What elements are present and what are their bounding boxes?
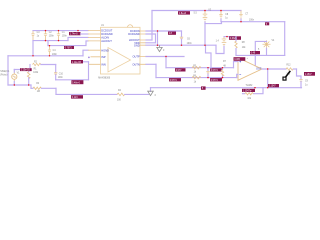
svg-text:OUTN: OUTN (132, 62, 139, 66)
svg-text:DCDGND: DCDGND (128, 32, 140, 36)
node label box B+ on top supply wire (178, 11, 190, 14)
wire bottom rail y=86.8 (151, 87, 302, 89)
capacitor C3 leads (32, 31, 34, 41)
resistor R1 bottom lead (28, 78, 30, 85)
svg-text:(Pulse): (Pulse) (0, 75, 7, 77)
svg-text:C2: C2 (49, 32, 53, 34)
resistor R2 zigzag (33, 63, 41, 65)
node label box on y=45.6 row (64, 46, 74, 49)
node label box I on upper run (175, 68, 186, 71)
node label box E (242, 89, 255, 92)
svg-text:ALDOUT: ALDOUT (101, 39, 112, 43)
junction dot R1 bottom (28, 84, 29, 85)
svg-text:1.4: 1.4 (216, 41, 220, 43)
capacitor C2 leads (45, 31, 47, 41)
capacitor C8 plates (219, 15, 222, 17)
junction dot V2 top (226, 36, 227, 37)
lamp source V4 rays (263, 40, 271, 48)
ground symbol 0 near IC (157, 45, 162, 51)
wire cap-row bottom bus y=40.6 (33, 40, 68, 42)
IC U1 internal amp triangle (108, 48, 131, 73)
wire top supply horizontal y=10.5 (152, 10, 241, 12)
svg-text:HGND: HGND (101, 48, 109, 52)
wire op-amp output down to bottom rail (267, 69, 269, 88)
capacitor C4 leads (49, 46, 51, 56)
svg-text:R4: R4 (118, 90, 122, 92)
wire cap-row top bus y=30.6 to IC pin DCDOUT (33, 30, 88, 32)
svg-text:+: + (247, 58, 249, 60)
svg-text:100n: 100n (187, 43, 193, 45)
svg-text:1u: 1u (37, 36, 40, 38)
svg-text:V4: V4 (272, 40, 276, 42)
IC U1 body (101, 27, 141, 74)
wire C10 to INN riser y=79.8 (56, 79, 89, 81)
wire jog up into ALDIN pin row (68, 37, 88, 40)
svg-text:100: 100 (117, 100, 122, 102)
junction dot row1 left (77, 30, 78, 31)
wire OUTN row from IC (146, 63, 156, 65)
svg-text:0.5774: 0.5774 (170, 80, 178, 82)
wire riser to R2 level (29, 65, 31, 70)
capacitor C1 leads (58, 31, 60, 41)
svg-text:100n: 100n (249, 20, 255, 22)
IC U1 top notch (128, 25, 133, 28)
wire row1 down to GND wire x=157.5 (157, 31, 159, 45)
node label box C at start of bottom bus (71, 95, 83, 98)
wire left vertical x=8 down (7, 56, 9, 85)
wire branch y=23.6 from V3 vertical to C8 net (205, 22, 222, 24)
svg-text:C4: C4 (53, 50, 57, 52)
wire LDOOUT row to top-supply vertical (146, 39, 152, 41)
resistor R3 leads (31, 87, 56, 89)
resistor R7 bridging input runs (222, 68, 224, 78)
junction dot bottom bus (58, 40, 59, 41)
svg-text:OUT: OUT (256, 66, 262, 70)
resistor R8 zigzag (235, 41, 237, 48)
wire C8 bottom to mid rail y=21.7 (220, 19, 222, 22)
junction dot C6 bottom (181, 44, 182, 45)
svg-text:100n: 100n (58, 77, 64, 79)
svg-text:DCDGND: DCDGND (101, 32, 113, 36)
node label box on V1 wire (20, 68, 32, 71)
node label box A (71, 60, 83, 63)
svg-text:1M: 1M (37, 91, 40, 93)
svg-text:0: 0 (155, 95, 157, 97)
op-amp U2 triangle (238, 58, 262, 81)
svg-text:C10: C10 (59, 73, 64, 75)
svg-text:10k: 10k (242, 47, 247, 49)
svg-text:V1: V1 (17, 73, 21, 75)
svg-text:0.5774: 0.5774 (211, 70, 219, 72)
wire drop to bottom bus (55, 88, 57, 94)
svg-text:DCDOUT: DCDOUT (101, 29, 113, 33)
voltage source V1 leads (13, 72, 15, 82)
junction dot GND wire left (157, 44, 158, 45)
wire OUTN drop to lower input run (155, 64, 157, 77)
resistor RE zigzag (245, 93, 254, 95)
wire R2 output to C10 drop (41, 64, 56, 66)
capacitor bridging input runs leads (207, 68, 209, 78)
svg-text:ALDIN: ALDIN (101, 36, 109, 40)
junction dot lower run R7 (222, 77, 223, 78)
resistor R1 top lead (28, 70, 30, 72)
wire V2 top rail y=36.6 to R8 (224, 36, 236, 38)
svg-text:0.7071: 0.7071 (65, 48, 73, 50)
wire jog down to R3 (30, 85, 32, 88)
capacitor C6 bottom lead (181, 39, 183, 45)
resistor R12 zigzag (286, 68, 293, 70)
wire R12 to output corner (293, 68, 296, 70)
wire from label box A to riser y=61.8 (83, 61, 89, 63)
capacitor C3 plates (31, 34, 34, 36)
node label box B on y=78.8 wire (71, 80, 83, 84)
junction dot C7 bottom rail (240, 21, 241, 22)
resistor R5 zigzag (192, 67, 201, 69)
IC U1 left pin stubs (88, 31, 101, 65)
wire upper input run y=67.7 (166, 67, 234, 69)
junction dot C4 top (49, 45, 50, 46)
wire C7 bottom to mid rail (240, 19, 242, 22)
wire mid row y=45.6 through label to ALDOUT jog (48, 41, 88, 46)
svg-text:U1: U1 (101, 25, 105, 27)
wire op-amp output y=69 (262, 68, 286, 70)
svg-text:1u: 1u (225, 18, 228, 20)
svg-text:1.12e-06: 1.12e-06 (72, 62, 82, 64)
junction dot bottom rail E (254, 87, 255, 88)
svg-text:10k: 10k (247, 98, 252, 100)
capacitor C9 plates (299, 80, 302, 82)
wire V4 bottom to y=55.4 rail (266, 48, 268, 55)
node label box on mid rail (265, 22, 269, 25)
wire V1 top rail y=69.5 (14, 69, 30, 71)
svg-text:TL082: TL082 (246, 84, 253, 87)
capacitor C7 plates (239, 14, 242, 16)
battery V3 leads (204, 11, 206, 23)
junction dot output node (267, 68, 268, 69)
wire OUTP row from IC (146, 56, 184, 58)
wire bottom-left bus y=85 (8, 84, 31, 86)
svg-text:5: 5 (258, 49, 260, 51)
resistor R1 zigzag (27, 72, 30, 79)
junction dot OUTP drop (165, 56, 166, 57)
wire y=55.4 rail from R8 to right vertical (236, 54, 285, 56)
junction dot upper run R7 (222, 67, 223, 68)
svg-text:C9: C9 (305, 81, 309, 83)
junction dot V3 top (204, 10, 206, 12)
junction dot cap row (45, 30, 46, 31)
IC U1 unconnected INP pin marker (88, 57, 90, 59)
node label box D on bottom rail (268, 84, 279, 87)
resistor R8 bottom lead (235, 49, 237, 56)
capacitor C2 plates (44, 34, 47, 36)
node label box on row1 right (168, 32, 176, 35)
svg-text:MAX98306: MAX98306 (98, 77, 110, 80)
wire mid rail y=21.7 (221, 21, 285, 23)
IC U1 right pin stubs (140, 31, 146, 64)
capacitor C6 drop from row1 (181, 31, 183, 37)
node label box on bottom rail (201, 86, 206, 89)
wire OUTP drop to upper input run (165, 57, 167, 68)
capacitor C6 plates (180, 37, 183, 39)
svg-text:100n: 100n (62, 36, 68, 38)
node label box for op-amp supply (234, 57, 246, 61)
wire from R4 to ground (125, 93, 149, 95)
svg-text:0: 0 (163, 50, 165, 52)
battery V3 plates (203, 14, 208, 19)
svg-text:C7: C7 (245, 13, 249, 15)
svg-text:C1: C1 (62, 32, 66, 34)
junction dot bottom rail D (267, 87, 268, 88)
resistor R4 zigzag (117, 93, 125, 96)
wire lower input run y=77.6 (156, 77, 237, 79)
svg-text:R12: R12 (286, 65, 291, 67)
node label box on DCDOUT row (69, 32, 81, 35)
svg-text:0.5774: 0.5774 (211, 80, 219, 82)
svg-text:0.49: 0.49 (251, 53, 256, 55)
wire down into C10 (55, 65, 57, 73)
node label box J on lower run (169, 78, 181, 81)
svg-text:R3: R3 (36, 83, 40, 85)
capacitor C4 plates (48, 50, 51, 51)
svg-text:1.8e+0: 1.8e+0 (179, 13, 187, 15)
junction dot cap row (58, 30, 59, 31)
svg-text:1u: 1u (305, 84, 308, 86)
wire V3 bottom long vertical to GND wire (204, 22, 206, 45)
battery V2 leads (223, 37, 225, 47)
wire jog from GND wire down to label J2 area (206, 45, 212, 68)
svg-text:5.48e-0: 5.48e-0 (72, 82, 81, 84)
svg-text:1.1547: 1.1547 (305, 74, 313, 76)
wire bottom bus left extension (56, 93, 83, 95)
capacitor C8 leads (220, 11, 222, 20)
junction dot ground bus left (32, 55, 33, 56)
voltage source V1 circle (12, 74, 17, 79)
svg-text:INN: INN (101, 62, 106, 66)
svg-text:1.13e-10: 1.13e-10 (21, 70, 31, 72)
wire V2 bottom to GND wire jog (216, 45, 224, 53)
junction dot bottom bus (45, 40, 46, 41)
wire DCDON row1 right y=31 (146, 30, 182, 32)
svg-text:3.465: 3.465 (234, 59, 240, 61)
svg-text:100n: 100n (49, 36, 55, 38)
capacitor bridging input runs plates (206, 71, 209, 73)
svg-text:R7: R7 (223, 61, 227, 63)
svg-text:R8: R8 (242, 42, 246, 44)
junction dot lower run cap (207, 77, 208, 78)
junction dot V3 bottom (204, 44, 205, 45)
svg-text:100k: 100k (33, 72, 39, 74)
svg-text:INP: INP (101, 55, 106, 59)
junction dot row1 right (157, 30, 158, 31)
resistor R6 zigzag (192, 76, 201, 78)
junction dot C8 top (220, 10, 222, 12)
resistor R8 top lead (235, 37, 237, 42)
capacitor C7 leads (240, 11, 242, 20)
wire top supply vertical drop to LDOOUT pin (151, 11, 153, 41)
svg-text:1k: 1k (194, 72, 197, 74)
svg-text:C8: C8 (225, 14, 229, 16)
svg-text:OUTP: OUTP (132, 55, 139, 59)
wire branch down from bottom bus at x=48 (47, 41, 49, 46)
wire ground bus y=55.8 (8, 55, 83, 57)
wire bottom bus y=94.4 (83, 93, 117, 95)
wire output corner down and jog to C9 (297, 69, 302, 79)
wire DCDGND row2 jog to VDD row (146, 34, 156, 43)
svg-text:1.1547e-: 1.1547e- (243, 90, 252, 92)
wire jog up into op-amp IN- (237, 74, 238, 77)
op-amp U2 input polarity marks (239, 61, 241, 75)
node label box H output (304, 72, 315, 76)
junction dot V1 bottom (14, 84, 15, 85)
ground symbol 0 bottom (150, 88, 152, 92)
node label box on V2/R8 rail (229, 36, 241, 40)
svg-text:1k: 1k (194, 82, 197, 84)
junction dot upper run cap (207, 67, 208, 68)
node label box I2 on upper run (210, 68, 222, 71)
svg-text:1.1547: 1.1547 (269, 86, 277, 88)
wire jog up into op-amp IN+ (234, 62, 239, 68)
capacitor C10 plates (54, 73, 57, 74)
node label box at V4 drop (250, 51, 260, 54)
wire DCDGND row y=34 from label box to IC (81, 33, 89, 35)
svg-text:GND: GND (134, 43, 140, 47)
node label box J2 on lower run (210, 78, 222, 81)
capacitor C9 bottom lead (300, 82, 302, 88)
oscilloscope probe on output (285, 71, 291, 79)
svg-text:5.5: 5.5 (194, 13, 198, 15)
wire ground bus corner up to HGND pin (83, 50, 88, 56)
battery V2 plates (222, 39, 227, 44)
wire feedback resistor drop (243, 88, 264, 94)
svg-text:0.124: 0.124 (72, 97, 78, 99)
wire GND row y=45.2 long to the right (146, 44, 216, 46)
svg-text:C6: C6 (187, 39, 191, 41)
svg-text:C3: C3 (37, 32, 41, 34)
capacitor C10 bottom lead (55, 75, 57, 80)
svg-text:1.74e-0: 1.74e-0 (70, 34, 79, 36)
wire riser x=88.5 from INN label row down to y=78.8 (88, 62, 90, 80)
svg-text:R1: R1 (34, 69, 38, 71)
resistor R3 zigzag (33, 87, 41, 89)
capacitor C1 plates (57, 34, 60, 36)
wire left vertical from bottom bus down to ground bus (32, 41, 34, 56)
svg-text:0.577: 0.577 (176, 70, 182, 72)
junction dot ground bus C4 (49, 55, 50, 56)
wire right vertical x=284.7 down to y=55.4 (284, 22, 286, 56)
svg-text:SINE(0 1: SINE(0 1 (0, 71, 10, 73)
wire V4 top to left label drop (255, 41, 266, 65)
